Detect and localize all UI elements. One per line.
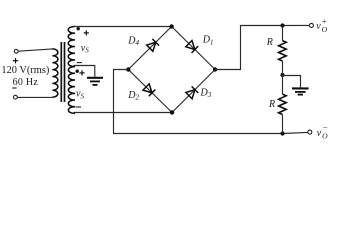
label vO- (317, 122, 328, 140)
resistor R (top) (279, 41, 287, 61)
diode D1 (186, 40, 199, 53)
svg-text:D4: D4 (127, 35, 139, 47)
label + (input) (13, 58, 18, 63)
node +vO rail (junction dot) (280, 23, 284, 27)
wire (18, 49, 53, 51)
svg-text:vS: vS (81, 43, 89, 55)
wire mid node to R2 (282, 75, 284, 94)
svg-text:+: + (322, 16, 327, 26)
wire top rail to R1 (282, 26, 284, 41)
input terminal bottom (14, 95, 18, 99)
bridge arm: bottom node to right node (D3 arm wire) (172, 70, 215, 113)
polarity dot secondary bottom half (76, 70, 79, 73)
node bottom (junction dot) (170, 110, 174, 114)
svg-text:D1: D1 (202, 35, 214, 47)
svg-text:120 V(rms): 120 V(rms) (1, 65, 49, 76)
svg-text:−: − (323, 122, 328, 132)
wire center tap to ground (74, 66, 95, 77)
transformer secondary coil (68, 26, 75, 113)
svg-text:vS: vS (76, 89, 84, 101)
wire +vO rail to terminal (283, 24, 310, 26)
wire secondary bottom to bridge bottom node (74, 112, 173, 114)
node top (junction dot) (169, 24, 173, 28)
svg-text:R: R (268, 99, 275, 110)
svg-text:O: O (322, 131, 328, 140)
output terminal -vO (308, 130, 312, 134)
svg-text:D3: D3 (200, 87, 212, 99)
transformer core (60, 42, 62, 102)
node -vO rail (junction dot) (280, 131, 284, 135)
bridge arm: top node to right node (D1 arm wire) (172, 27, 216, 70)
diode D4 (146, 39, 159, 52)
diode D2 (143, 84, 156, 97)
resistor R (bottom) (279, 94, 287, 114)
ground (mid node) (292, 88, 309, 94)
input terminal top (14, 49, 18, 53)
svg-text:R: R (266, 37, 273, 48)
label - (secondary bottom) (76, 106, 82, 108)
wire right node up to +vO rail (215, 26, 282, 70)
wire (17, 96, 52, 98)
transformer primary coil (52, 49, 57, 97)
wire R2 to bottom rail (282, 115, 284, 134)
svg-text:D2: D2 (127, 90, 139, 102)
node right (junction dot) (213, 67, 217, 71)
svg-text:v: v (316, 21, 321, 32)
label - (secondary top) (77, 62, 82, 64)
svg-text:O: O (322, 25, 328, 34)
node mid (junction dot) (280, 73, 284, 77)
label + (secondary top) (84, 30, 89, 35)
polarity dot secondary top (77, 27, 80, 30)
wire R1 to mid node (282, 61, 284, 75)
node left (junction dot) (126, 67, 130, 71)
wire left node to -vO rail (114, 70, 283, 134)
bridge arm: left node to top node (D4 arm wire) (128, 27, 171, 70)
diode D3 (186, 86, 199, 99)
output terminal +vO (309, 23, 313, 27)
wire secondary top to bridge top node (74, 26, 172, 28)
svg-text:v: v (317, 128, 322, 139)
label vO+ (316, 16, 327, 34)
ground (center tap) (87, 78, 103, 85)
wire -vO rail to terminal (283, 132, 308, 133)
bridge arm: left node to bottom node (D2 arm wire) (128, 70, 172, 113)
label - (input) (12, 87, 16, 89)
wire mid node to ground (283, 76, 301, 88)
label + (secondary bottom) (79, 70, 84, 75)
svg-text:60 Hz: 60 Hz (13, 77, 39, 88)
